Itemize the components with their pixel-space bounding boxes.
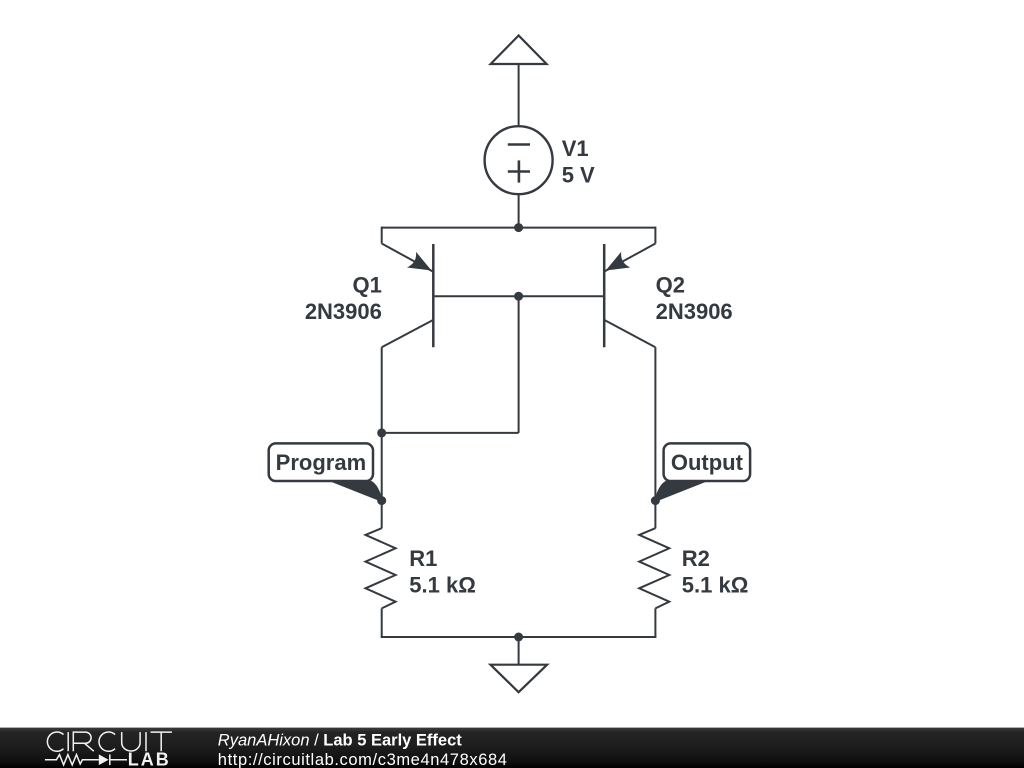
transistor Q2 xyxy=(604,227,656,529)
footer title line xyxy=(218,731,462,749)
junction collector-base tie xyxy=(377,428,386,437)
voltage source V1 xyxy=(485,126,553,194)
svg-text:Output: Output xyxy=(671,450,744,475)
ground xyxy=(491,665,548,693)
svg-text:5.1 kΩ: 5.1 kΩ xyxy=(409,573,476,598)
wire emitter rail xyxy=(382,227,656,229)
VCC power symbol xyxy=(491,36,547,65)
svg-text:5.1 kΩ: 5.1 kΩ xyxy=(682,573,749,598)
svg-text:LAB: LAB xyxy=(128,750,171,768)
svg-text:2N3906: 2N3906 xyxy=(305,299,382,324)
resistor R1 xyxy=(366,528,396,608)
transistor Q1 xyxy=(382,227,434,434)
svg-text:V1: V1 xyxy=(562,136,589,161)
V1 value label 5 V xyxy=(562,163,595,188)
junction base rail xyxy=(514,292,523,301)
junction Output node xyxy=(651,496,660,505)
svg-text:2N3906: 2N3906 xyxy=(656,299,733,324)
V1 name label xyxy=(562,136,589,161)
Q1 value label 2N3906 xyxy=(305,299,382,324)
svg-text:R1: R1 xyxy=(409,546,437,571)
R2 value label 5.1 kOhm xyxy=(682,573,749,598)
svg-text:http://circuitlab.com/c3me4n47: http://circuitlab.com/c3me4n478x684 xyxy=(218,751,508,768)
wire base tie vertical xyxy=(518,296,520,433)
svg-text:Program: Program xyxy=(276,450,366,475)
wire base tie horizontal xyxy=(382,432,519,434)
R1 value label 5.1 kOhm xyxy=(409,573,476,598)
footer bar xyxy=(0,728,1024,768)
wire to ground symbol xyxy=(518,637,520,665)
wire V1 to emitter rail xyxy=(518,194,520,227)
R1 name label xyxy=(409,546,437,571)
CircuitLab logo wordmark CIRCUIT xyxy=(47,732,172,751)
resistor R2 xyxy=(639,528,669,608)
node Program callout xyxy=(269,443,383,501)
wire ground rail xyxy=(381,636,657,638)
Q2 value label 2N3906 xyxy=(656,299,733,324)
wire R2 to ground rail xyxy=(654,608,656,637)
wire base rail Q1 to Q2 xyxy=(433,295,604,297)
R2 name label xyxy=(682,546,710,571)
svg-text:Q2: Q2 xyxy=(656,272,685,297)
Q2 name label xyxy=(656,272,685,297)
junction emitter rail xyxy=(514,223,523,232)
svg-text:R2: R2 xyxy=(682,546,710,571)
svg-text:RyanAHixon / Lab 5 Early Effec: RyanAHixon / Lab 5 Early Effect xyxy=(218,731,462,749)
footer url line xyxy=(218,751,508,768)
svg-text:5 V: 5 V xyxy=(562,163,595,188)
wire VCC to V1 xyxy=(518,64,520,127)
node Output callout xyxy=(655,443,750,501)
svg-text:Q1: Q1 xyxy=(353,272,382,297)
CircuitLab logo circuit squiggle xyxy=(45,754,127,765)
wire Q1 collector to R1 xyxy=(381,433,383,529)
CircuitLab logo wordmark LAB xyxy=(128,750,171,768)
Q1 name label xyxy=(353,272,382,297)
junction ground rail xyxy=(514,633,523,642)
junction Program node xyxy=(377,496,386,505)
wire R1 to ground rail xyxy=(381,608,383,637)
